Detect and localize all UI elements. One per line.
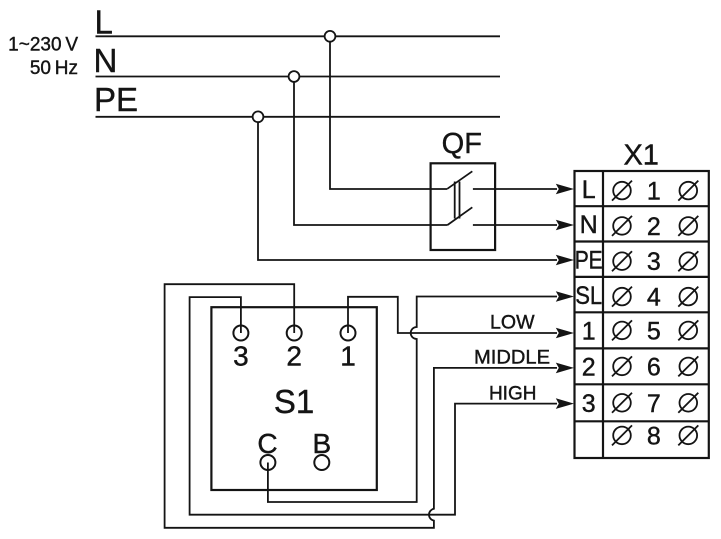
terminal block X1 frame xyxy=(575,171,709,458)
svg-text:4: 4 xyxy=(647,284,661,312)
svg-text:2: 2 xyxy=(286,340,302,371)
svg-text:L: L xyxy=(582,176,596,204)
QF pole 2 blade xyxy=(447,207,472,225)
X1 screw symbol row 3 right xyxy=(678,251,698,271)
X1 row divider 4 xyxy=(575,311,709,313)
X1 screw symbol row 6 right xyxy=(678,356,698,376)
X1 screw symbol row 4 right xyxy=(678,287,698,307)
QF linkage bar xyxy=(454,182,456,219)
svg-text:1: 1 xyxy=(582,318,596,346)
svg-text:X1: X1 xyxy=(623,140,658,172)
junction PE xyxy=(253,111,264,122)
svg-text:S1: S1 xyxy=(274,383,314,420)
svg-text:3: 3 xyxy=(582,390,596,418)
svg-text:HIGH: HIGH xyxy=(489,383,537,404)
svg-text:2: 2 xyxy=(647,213,661,241)
X1 row divider 2 xyxy=(575,240,709,242)
X1 screw symbol row 1 left xyxy=(612,181,632,201)
switch S1 body xyxy=(211,307,376,490)
X1 label column divider xyxy=(602,171,604,458)
X1 screw symbol row 8 right xyxy=(678,425,698,445)
S1 terminal C xyxy=(260,455,275,470)
svg-text:1: 1 xyxy=(340,340,356,371)
wire S1 pin 1 to X1 terminal 1 LOW xyxy=(348,297,557,333)
arrow into X1 PE xyxy=(556,255,574,266)
svg-text:8: 8 xyxy=(647,422,661,450)
wire PE bus xyxy=(96,116,501,118)
arrow into X1 SL xyxy=(556,291,574,302)
svg-text:PE: PE xyxy=(94,81,138,118)
arrow into X1 3 xyxy=(556,398,574,409)
X1 row divider 5 xyxy=(575,347,709,349)
X1 screw symbol row 2 left xyxy=(612,216,632,236)
X1 screw symbol row 6 left xyxy=(612,356,632,376)
X1 screw symbol row 7 right xyxy=(678,393,698,413)
svg-text:N: N xyxy=(580,211,598,239)
X1 screw symbol row 7 left xyxy=(612,393,632,413)
svg-text:LOW: LOW xyxy=(490,313,535,334)
junction N xyxy=(289,71,300,82)
svg-text:1: 1 xyxy=(647,178,661,206)
X1 row divider 3 xyxy=(575,276,709,278)
wire L tap to QF pole 1 xyxy=(330,36,447,189)
svg-text:2: 2 xyxy=(582,354,596,382)
svg-text:3: 3 xyxy=(233,340,249,371)
svg-text:QF: QF xyxy=(442,128,482,160)
wire QF pole 1 to X1 terminal L xyxy=(473,188,557,190)
arrow into X1 L xyxy=(556,184,574,195)
wire QF pole 2 to X1 terminal N xyxy=(473,224,557,226)
svg-text:7: 7 xyxy=(647,390,661,418)
wire S1 pin 2 to X1 terminal 2 MIDDLE (hops over pin3 wire) xyxy=(165,284,557,528)
svg-text:PE: PE xyxy=(575,246,603,274)
arrow into X1 1 xyxy=(556,328,574,339)
svg-text:L: L xyxy=(95,4,113,41)
S1 terminal 2 xyxy=(287,326,302,341)
svg-text:SL: SL xyxy=(575,282,602,310)
wire PE tap to X1 terminal PE xyxy=(258,117,557,260)
wire S1 pin C to X1 terminal SL (hops over LOW wire) xyxy=(268,297,557,503)
X1 row divider 7 xyxy=(575,420,709,422)
QF pole 1 blade xyxy=(447,171,472,189)
svg-text:1~230 V: 1~230 V xyxy=(8,35,78,56)
wire S1 pin 3 to X1 terminal 3 HIGH xyxy=(190,297,557,515)
X1 screw symbol row 5 left xyxy=(612,320,632,340)
svg-text:N: N xyxy=(94,42,118,79)
S1 terminal 3 xyxy=(233,326,248,341)
svg-text:MIDDLE: MIDDLE xyxy=(474,348,550,369)
wire N bus xyxy=(96,76,501,78)
junction L xyxy=(325,31,336,42)
S1 terminal B xyxy=(314,455,329,470)
X1 screw symbol row 2 right xyxy=(678,216,698,236)
svg-text:50 Hz: 50 Hz xyxy=(30,58,78,79)
X1 row divider 6 xyxy=(575,383,709,385)
breaker QF body xyxy=(431,163,496,250)
X1 screw symbol row 5 right xyxy=(678,320,698,340)
wire N tap to QF pole 2 xyxy=(294,77,447,226)
arrow into X1 N xyxy=(556,220,574,231)
svg-text:5: 5 xyxy=(647,317,661,345)
wire L bus xyxy=(96,35,501,37)
arrow into X1 2 xyxy=(556,363,574,374)
svg-text:6: 6 xyxy=(647,353,661,381)
svg-text:3: 3 xyxy=(647,248,661,276)
X1 screw symbol row 1 right xyxy=(678,181,698,201)
X1 screw symbol row 8 left xyxy=(612,425,632,445)
X1 screw symbol row 4 left xyxy=(612,287,632,307)
X1 row divider 1 xyxy=(575,205,709,207)
X1 screw symbol row 3 left xyxy=(612,251,632,271)
S1 terminal 1 xyxy=(341,326,356,341)
